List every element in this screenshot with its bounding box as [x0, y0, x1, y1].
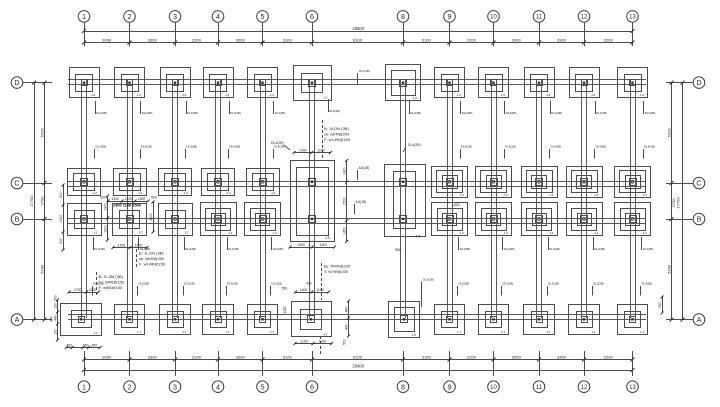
svg-text:4: 4: [216, 12, 220, 21]
svg-text:DL4(2B): DL4(2B): [141, 145, 152, 149]
svg-text:9: 9: [448, 382, 452, 391]
svg-text:3: 3: [173, 382, 177, 391]
svg-text:DL4(2B): DL4(2B): [461, 145, 472, 149]
svg-text:550: 550: [658, 302, 662, 308]
svg-text:1100: 1100: [319, 339, 326, 343]
svg-text:DL4(2B): DL4(2B): [410, 111, 421, 115]
svg-text:zk: wbΦ@200: zk: wbΦ@200: [324, 132, 350, 137]
svg-text:J-1: J-1: [640, 330, 645, 334]
svg-text:DL3(2B): DL3(2B): [184, 282, 195, 286]
svg-text:J-2: J-2: [504, 193, 509, 197]
svg-text:DL3(2B): DL3(2B): [642, 282, 653, 286]
svg-text:1200: 1200: [118, 243, 126, 247]
svg-text:12: 12: [581, 385, 588, 391]
svg-text:3300: 3300: [148, 37, 158, 42]
svg-text:DL3(2B): DL3(2B): [423, 278, 434, 282]
svg-text:D: D: [696, 78, 701, 87]
svg-text:J-5: J-5: [416, 235, 421, 239]
svg-text:6100: 6100: [353, 354, 363, 359]
svg-text:2200: 2200: [604, 354, 614, 359]
svg-text:17700: 17700: [29, 195, 34, 207]
svg-text:DL4(2B): DL4(2B): [462, 111, 473, 115]
svg-text:J-4: J-4: [270, 93, 275, 97]
svg-text:10: 10: [490, 385, 497, 391]
svg-text:DL4(2B): DL4(2B): [187, 111, 198, 115]
svg-text:1400: 1400: [342, 167, 346, 175]
svg-text:11: 11: [536, 385, 543, 391]
svg-text:DL3(2B): DL3(2B): [503, 282, 514, 286]
svg-text:1400: 1400: [297, 243, 305, 247]
svg-text:1300: 1300: [103, 225, 107, 233]
svg-text:440: 440: [344, 324, 348, 330]
svg-text:DL4(2B): DL4(2B): [273, 247, 284, 251]
svg-text:DL4(2B): DL4(2B): [505, 145, 516, 149]
svg-text:500: 500: [59, 192, 63, 198]
svg-text:D: D: [14, 78, 19, 87]
svg-text:150: 150: [53, 329, 57, 335]
svg-text:J-2: J-2: [273, 231, 278, 235]
svg-text:J-1: J-1: [182, 330, 187, 334]
svg-text:1300: 1300: [452, 203, 460, 207]
svg-text:DL3(2B): DL3(2B): [139, 282, 150, 286]
svg-text:2200: 2200: [192, 354, 202, 359]
svg-text:J-4: J-4: [640, 93, 645, 97]
svg-text:12: 12: [581, 15, 588, 21]
svg-text:3300: 3300: [148, 354, 158, 359]
svg-text:650: 650: [83, 343, 89, 347]
svg-text:J-2: J-2: [184, 231, 189, 235]
svg-text:11: 11: [536, 15, 543, 21]
svg-text:3000: 3000: [102, 37, 112, 42]
svg-text:JL6(1B): JL6(1B): [355, 200, 366, 204]
svg-text:B: B: [15, 215, 20, 224]
svg-text:J-4: J-4: [457, 93, 462, 97]
svg-text:1100: 1100: [316, 288, 323, 292]
svg-text:J-2: J-2: [93, 191, 98, 195]
svg-text:440: 440: [344, 307, 348, 313]
svg-text:J-1: J-1: [225, 330, 230, 334]
svg-text:500: 500: [151, 196, 157, 200]
svg-text:A: A: [697, 315, 702, 324]
svg-text:26600: 26600: [352, 364, 364, 369]
svg-text:1100: 1100: [89, 288, 96, 292]
svg-text:J-3: J-3: [412, 333, 417, 337]
svg-text:J-1: J-1: [137, 330, 142, 334]
svg-text:JL6(1B): JL6(1B): [358, 166, 369, 170]
svg-text:550: 550: [395, 248, 401, 252]
svg-text:9: 9: [448, 12, 452, 21]
svg-text:B₂: ΦΛΦ@200: B₂: ΦΛΦ@200: [324, 264, 351, 269]
svg-text:3000: 3000: [236, 37, 246, 42]
svg-text:F: wΦ6@150: F: wΦ6@150: [99, 285, 123, 290]
svg-text:10: 10: [490, 15, 497, 21]
svg-text:3100: 3100: [283, 37, 293, 42]
svg-text:3100: 3100: [422, 354, 432, 359]
svg-text:F: w14Φ@150: F: w14Φ@150: [139, 262, 166, 267]
svg-text:1100: 1100: [317, 148, 324, 152]
svg-text:1400: 1400: [299, 148, 307, 152]
svg-text:8: 8: [401, 12, 405, 21]
svg-text:DL3(2B): DL3(2B): [459, 282, 470, 286]
svg-text:DL4(2B): DL4(2B): [551, 111, 562, 115]
svg-text:J-3: J-3: [413, 96, 418, 100]
svg-text:5: 5: [261, 382, 265, 391]
svg-text:2: 2: [128, 382, 132, 391]
svg-text:J-2: J-2: [460, 193, 465, 197]
svg-text:DL7(1B): DL7(1B): [359, 69, 370, 73]
svg-text:DL4(2B): DL4(2B): [230, 145, 241, 149]
svg-text:550: 550: [343, 339, 347, 345]
svg-text:J-2: J-2: [93, 231, 98, 235]
svg-text:J-4: J-4: [591, 93, 596, 97]
svg-text:T: ΦΛΦ@200: T: ΦΛΦ@200: [324, 269, 349, 274]
svg-text:B: B: [697, 215, 702, 224]
svg-text:DL4(2B): DL4(2B): [187, 145, 198, 149]
svg-text:1300: 1300: [103, 203, 107, 211]
svg-text:5200: 5200: [666, 264, 671, 274]
svg-text:3000: 3000: [512, 37, 522, 42]
svg-text:2: 2: [128, 12, 132, 21]
svg-text:DL3(2B): DL3(2B): [593, 282, 604, 286]
svg-text:DL4(2B): DL4(2B): [94, 247, 105, 251]
svg-text:1: 1: [82, 382, 86, 391]
svg-text:J-2: J-2: [460, 231, 465, 235]
svg-text:DL4(2B): DL4(2B): [96, 145, 107, 149]
svg-text:J-2: J-2: [184, 191, 189, 195]
svg-text:400: 400: [306, 282, 312, 286]
svg-text:450: 450: [66, 343, 72, 347]
svg-text:J-1: J-1: [501, 330, 506, 334]
svg-text:8: 8: [401, 382, 405, 391]
svg-text:2700: 2700: [39, 196, 44, 206]
svg-text:B: J4,DN (3B): B: J4,DN (3B): [324, 126, 349, 131]
svg-text:bJ: wΦ6@150: bJ: wΦ6@150: [99, 280, 125, 285]
svg-text:3000: 3000: [102, 354, 112, 359]
svg-text:1400: 1400: [111, 197, 119, 201]
svg-text:2200: 2200: [604, 37, 614, 42]
svg-text:2200: 2200: [192, 37, 202, 42]
svg-text:3000: 3000: [512, 354, 522, 359]
svg-text:6: 6: [310, 382, 314, 391]
svg-text:5: 5: [261, 12, 265, 21]
svg-text:450: 450: [91, 343, 97, 347]
svg-text:DL4(2B): DL4(2B): [96, 111, 107, 115]
svg-text:J-2: J-2: [271, 191, 276, 195]
svg-text:2200: 2200: [467, 354, 477, 359]
svg-text:13: 13: [629, 15, 636, 21]
svg-text:2200: 2200: [467, 37, 477, 42]
svg-text:2500: 2500: [342, 197, 346, 205]
svg-text:J-3: J-3: [323, 96, 328, 100]
svg-text:1100: 1100: [283, 306, 287, 313]
svg-text:150: 150: [53, 303, 57, 309]
svg-text:4: 4: [216, 382, 220, 391]
svg-text:3100: 3100: [283, 354, 293, 359]
svg-text:J-3: J-3: [323, 332, 328, 336]
svg-text:zk: wbΦ@200: zk: wbΦ@200: [139, 256, 165, 261]
svg-text:DL4(2B): DL4(2B): [274, 145, 285, 149]
svg-text:J-4: J-4: [501, 93, 506, 97]
svg-text:DL4(2B): DL4(2B): [596, 145, 607, 149]
svg-text:1: 1: [82, 12, 86, 21]
svg-text:1100: 1100: [125, 197, 132, 201]
svg-text:J-1: J-1: [270, 330, 275, 334]
svg-text:1400: 1400: [300, 288, 308, 292]
svg-text:DL3(2B): DL3(2B): [272, 282, 283, 286]
svg-text:DL4(2B): DL4(2B): [596, 111, 607, 115]
svg-text:J-2: J-2: [643, 193, 648, 197]
svg-text:J-2: J-2: [549, 231, 554, 235]
svg-text:J-4: J-4: [225, 93, 230, 97]
svg-text:J-2: J-2: [138, 191, 143, 195]
svg-text:J-1: J-1: [591, 330, 596, 334]
svg-text:1300: 1300: [135, 243, 143, 247]
svg-text:440: 440: [50, 316, 54, 322]
svg-text:J-2: J-2: [228, 231, 233, 235]
svg-text:5200: 5200: [39, 264, 44, 274]
svg-text:17700: 17700: [676, 197, 681, 209]
svg-text:J-4: J-4: [137, 93, 142, 97]
svg-text:C: C: [696, 179, 701, 188]
svg-text:DL4(2B): DL4(2B): [549, 247, 560, 251]
svg-text:DL3(2B): DL3(2B): [227, 282, 238, 286]
svg-text:500: 500: [59, 238, 63, 244]
svg-text:1300: 1300: [59, 215, 63, 223]
svg-text:DL3(2B): DL3(2B): [548, 282, 559, 286]
svg-text:C: C: [14, 179, 19, 188]
svg-text:500: 500: [100, 196, 106, 200]
svg-text:550: 550: [282, 287, 288, 291]
svg-text:DL4(2B): DL4(2B): [645, 111, 656, 115]
svg-text:J-2: J-2: [594, 193, 599, 197]
svg-text:J-2: J-2: [594, 231, 599, 235]
svg-text:B: JL,DN (3B): B: JL,DN (3B): [139, 251, 164, 256]
svg-text:DL4(2B): DL4(2B): [460, 247, 471, 251]
svg-text:DL4(2B): DL4(2B): [551, 145, 562, 149]
svg-text:DL4(2B): DL4(2B): [275, 111, 286, 115]
svg-text:1100: 1100: [300, 339, 307, 343]
svg-text:DL4(2B): DL4(2B): [271, 141, 284, 145]
svg-text:DL4(2B): DL4(2B): [329, 109, 340, 113]
svg-text:440: 440: [53, 315, 57, 321]
svg-text:DL4(2B): DL4(2B): [230, 111, 241, 115]
svg-text:4100: 4100: [149, 213, 153, 221]
svg-text:3: 3: [173, 12, 177, 21]
svg-text:DL4(2B): DL4(2B): [142, 111, 153, 115]
svg-text:J-2: J-2: [227, 191, 232, 195]
svg-text:DL4(2B): DL4(2B): [594, 247, 605, 251]
svg-text:DL4(2B): DL4(2B): [504, 247, 515, 251]
svg-text:3100: 3100: [422, 37, 432, 42]
svg-text:6: 6: [310, 12, 314, 21]
svg-text:6100: 6100: [353, 37, 363, 42]
svg-text:5200: 5200: [39, 128, 44, 138]
svg-text:DL4(2B): DL4(2B): [506, 111, 517, 115]
svg-text:13: 13: [629, 385, 636, 391]
svg-text:J-1: J-1: [546, 330, 551, 334]
svg-text:3300: 3300: [557, 354, 567, 359]
svg-text:1450: 1450: [342, 227, 346, 235]
svg-text:DL4(2B): DL4(2B): [644, 145, 655, 149]
svg-text:J-4: J-4: [91, 93, 96, 97]
svg-text:3300: 3300: [557, 37, 567, 42]
svg-text:B: JL,3M (3B): B: JL,3M (3B): [99, 274, 124, 279]
svg-text:DL4(2B): DL4(2B): [408, 143, 421, 147]
svg-text:J-5: J-5: [325, 236, 330, 240]
svg-text:DL4(2B): DL4(2B): [185, 247, 196, 251]
svg-text:J-1: J-1: [457, 330, 462, 334]
svg-text:J-2: J-2: [139, 231, 144, 235]
svg-text:5200: 5200: [666, 128, 671, 138]
svg-text:1100: 1100: [320, 243, 327, 247]
svg-text:DL4(2B): DL4(2B): [228, 247, 239, 251]
svg-text:J-2: J-2: [643, 231, 648, 235]
svg-text:J-4: J-4: [546, 93, 551, 97]
svg-text:DL4(2B): DL4(2B): [643, 247, 654, 251]
svg-text:A: A: [15, 315, 20, 324]
svg-text:J-1: J-1: [94, 331, 99, 335]
svg-text:1400 1100 1500: 1400 1100 1500: [113, 203, 141, 208]
svg-text:F: w14Φ@150: F: w14Φ@150: [324, 137, 351, 142]
svg-text:J-4: J-4: [182, 93, 187, 97]
svg-text:550: 550: [53, 295, 57, 301]
svg-text:1700: 1700: [74, 288, 82, 292]
svg-text:1500: 1500: [138, 197, 146, 201]
svg-text:26600: 26600: [352, 26, 364, 31]
svg-text:J-2: J-2: [504, 231, 509, 235]
svg-text:3000: 3000: [236, 354, 246, 359]
svg-text:J-2: J-2: [549, 193, 554, 197]
